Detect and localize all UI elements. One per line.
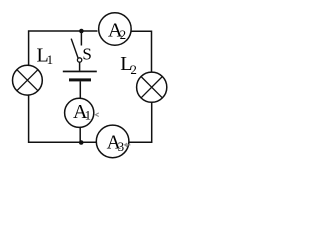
label L2 [120,53,137,77]
wire: switch to battery [79,62,81,70]
lamp L2 [137,72,167,102]
switch S: blade [71,39,78,59]
switch S: pivot circle [77,58,81,62]
node: junction dot top [79,29,84,34]
wire: A1 to bottom wire [79,127,81,142]
node: junction dot bottom [79,140,84,145]
battery cell: short thick plate (-) [69,78,91,81]
current arrow near A3 (gray) [125,143,131,147]
ammeter A1 [65,98,94,127]
battery cell: long thin plate (+) [63,71,97,73]
ammeter A2 [99,13,131,46]
svg-text:2: 2 [130,62,137,77]
lamp L1 [13,65,43,95]
wire: top wire right segment (A2 to top-right corner) [131,31,152,72]
switch S: fixed contact wire [80,31,82,46]
ammeter A3 [96,125,129,158]
svg-text:S: S [82,44,91,63]
wire: battery to A1 [79,81,81,98]
svg-text:3: 3 [118,139,125,154]
label L1 [37,44,54,67]
wire: top wire left segment (top-left corner to A2) [29,31,98,65]
wire: bottom wire right segment (A3 to bottom-right corner) [129,102,152,142]
current arrow near A1 (gray) [95,113,98,117]
svg-text:1: 1 [85,107,92,122]
svg-text:1: 1 [47,52,54,67]
wire: left wire lower segment [29,95,97,142]
svg-text:2: 2 [120,27,127,42]
